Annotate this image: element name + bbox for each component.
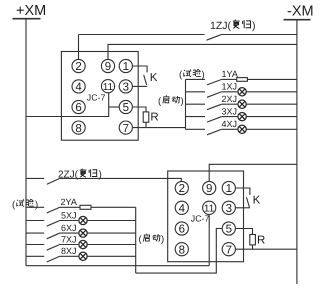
pin 2 <box>72 59 85 72</box>
wire lamp 7XJ to bus <box>87 244 135 246</box>
pin 5 (bottom box) <box>222 222 235 235</box>
row 2XJ contact blade <box>207 104 221 109</box>
wire blade to lamp 5XJ <box>60 220 79 222</box>
row 1YA: stub <box>186 78 206 80</box>
resistor R top body <box>143 112 149 122</box>
contact K top: fixed stub pin1 <box>132 66 147 72</box>
wire blade to lamp 1XJ <box>221 91 237 93</box>
svg-text:2: 2 <box>179 183 185 195</box>
pin 9 <box>101 59 114 72</box>
wire pin11 riser down to +XM wire <box>208 214 210 265</box>
row 8XJ contact blade <box>47 256 60 262</box>
label 2ZJ(reset) <box>58 170 79 181</box>
row 5XJ contact blade <box>47 221 60 227</box>
pin 4 (bottom box) <box>175 201 188 214</box>
svg-text:6XJ: 6XJ <box>61 223 77 233</box>
pin 6 (bottom box) <box>175 222 188 235</box>
label (test) top <box>179 70 205 81</box>
pin 11 <box>101 80 114 93</box>
wire lamp 1XJ to -XM <box>246 91 297 93</box>
relay box U1 JC-7 (top) <box>61 52 138 141</box>
glyph gui <box>243 20 251 28</box>
wire pin9 to -XM (bottom) <box>209 164 297 181</box>
contact K top blade <box>144 75 147 85</box>
label JC-7 top <box>87 93 106 103</box>
row 7XJ contact blade <box>47 245 60 251</box>
label (test) bottom <box>12 199 38 210</box>
pin 4 <box>72 80 85 93</box>
label 4XJ <box>222 119 238 129</box>
label K top <box>150 72 158 84</box>
wire lamp 2XJ to -XM <box>246 103 297 105</box>
label 1XJ <box>222 82 238 92</box>
contact blade 1ZJ <box>207 35 222 41</box>
svg-text:JC-7: JC-7 <box>191 213 210 223</box>
svg-text:9: 9 <box>206 183 212 195</box>
svg-text:R: R <box>257 234 265 246</box>
row 2YA: stub from +XM <box>26 206 44 208</box>
row 8XJ: stub from +XM <box>26 255 44 257</box>
svg-text:2YA: 2YA <box>61 197 77 207</box>
wire blade to coil 2YA <box>60 206 81 208</box>
svg-text:): ) <box>35 199 38 210</box>
row 7XJ: stub from +XM <box>26 244 44 246</box>
label 1ZJ(reset) <box>210 20 232 32</box>
pin 2 (bottom box) <box>175 181 188 194</box>
svg-text:R: R <box>150 112 158 124</box>
label 2XJ <box>222 94 238 104</box>
svg-text:3XJ: 3XJ <box>222 106 238 116</box>
pin 9 (bottom box) <box>203 181 216 194</box>
label 5XJ <box>61 210 77 220</box>
label (start) top <box>158 96 184 107</box>
label JC-7 bottom <box>191 213 210 223</box>
svg-text:2: 2 <box>75 61 81 73</box>
label K bottom <box>253 195 261 207</box>
wire +XM to 2ZJ contact <box>26 177 44 179</box>
wire +XM vertical bus <box>25 19 27 266</box>
row 1YA contact blade <box>207 80 221 85</box>
svg-text:5: 5 <box>123 102 129 114</box>
svg-text:4XJ: 4XJ <box>222 119 238 129</box>
svg-text:5XJ: 5XJ <box>61 210 77 220</box>
pin 1 (bottom box) <box>222 181 235 194</box>
wire coil 2YA to lamp bus <box>91 206 136 208</box>
svg-text:8: 8 <box>179 244 185 256</box>
wire 1ZJ contact to -XM <box>221 34 297 36</box>
svg-text:): ) <box>252 20 256 32</box>
wire lamp 4XJ to -XM <box>246 128 297 130</box>
wire lamp 5XJ to bus <box>87 220 135 222</box>
resistor R bottom body <box>250 235 256 245</box>
pin 1 <box>119 59 132 72</box>
pin 8 <box>72 121 85 134</box>
contact K bottom stub pin3 <box>235 207 250 209</box>
resistor R bottom: stub pin5 right <box>235 229 252 235</box>
svg-text:K: K <box>150 72 158 84</box>
wire 2ZJ to pin2 <box>60 178 182 181</box>
wire lamp 8XJ to bus <box>87 255 135 257</box>
svg-text:+XM: +XM <box>16 3 46 19</box>
svg-text:9: 9 <box>105 61 111 73</box>
bus bar +XM <box>13 18 41 20</box>
bus +XM label <box>16 3 46 19</box>
wire A from pin2 to 1ZJ contact <box>79 34 205 36</box>
row 3XJ contact blade <box>207 117 221 122</box>
bus -XM label <box>287 4 314 20</box>
pin 11 (bottom box) <box>203 201 216 214</box>
contact K top stub pin3 <box>132 85 147 87</box>
svg-text:5: 5 <box>226 224 232 236</box>
label 8XJ <box>61 246 77 256</box>
label 3XJ <box>222 106 238 116</box>
wire -XM vertical bus <box>296 20 298 284</box>
svg-text:3: 3 <box>226 203 232 215</box>
contact blade 2ZJ <box>47 179 60 185</box>
resistor R top lead <box>145 122 147 127</box>
lamp 4XJ <box>238 125 246 133</box>
svg-text:1ZJ(: 1ZJ( <box>210 20 232 32</box>
lamp 8XJ <box>79 252 87 260</box>
svg-text:6: 6 <box>75 102 81 114</box>
wire blade to lamp 2XJ <box>221 103 237 105</box>
svg-text:7XJ: 7XJ <box>61 234 77 244</box>
wire blade to lamp 4XJ <box>221 128 237 130</box>
coil 1YA body <box>237 78 248 82</box>
svg-text:): ) <box>161 234 164 245</box>
wire pin7 to -XM (bottom) <box>235 248 297 250</box>
contact K bottom blade <box>247 197 250 207</box>
row 2YA contact blade <box>47 207 60 213</box>
row 4XJ contact blade <box>207 129 221 134</box>
wire blade to lamp 7XJ <box>60 244 79 246</box>
pin 3 (bottom box) <box>222 201 235 214</box>
wire blade to lamp 6XJ <box>60 232 79 234</box>
row 1XJ: stub <box>186 91 206 93</box>
start bus vertical (top rows) <box>185 79 187 129</box>
wire +XM bottom run <box>26 265 209 267</box>
wire coil 1YA to -XM <box>247 78 297 80</box>
svg-text:8: 8 <box>75 123 81 135</box>
contact K bottom: fixed stub pin1 <box>235 188 250 195</box>
lamp 7XJ <box>79 240 87 248</box>
lamp 6XJ <box>79 229 87 237</box>
label R bottom <box>257 234 265 246</box>
wire stub to pin 5 left <box>109 106 120 108</box>
svg-text:K: K <box>253 195 261 207</box>
label 6XJ <box>61 223 77 233</box>
row 6XJ: stub from +XM <box>26 232 44 234</box>
lamp bus vertical (bottom rows) <box>135 207 137 273</box>
row 4XJ: stub <box>186 128 206 130</box>
wire pin5 left stub down and to lamp bus <box>136 229 223 274</box>
svg-text:(: ( <box>179 70 183 81</box>
resistor R bottom lead <box>252 245 254 249</box>
svg-text:1: 1 <box>123 61 129 73</box>
svg-text:1YA: 1YA <box>222 69 238 79</box>
wire pin7 to start bus <box>132 127 185 129</box>
svg-text:(: ( <box>158 96 162 107</box>
svg-text:-XM: -XM <box>287 4 314 20</box>
svg-text:6: 6 <box>179 224 185 236</box>
resistor R top: stub pin5 right <box>132 107 146 112</box>
svg-text:8XJ: 8XJ <box>61 246 77 256</box>
svg-text:1XJ: 1XJ <box>222 82 238 92</box>
svg-text:7: 7 <box>123 123 129 135</box>
lamp 5XJ <box>79 216 87 224</box>
coil 2YA body <box>80 205 91 209</box>
wire blade to lamp 8XJ <box>60 255 79 257</box>
svg-text:(: ( <box>12 199 16 210</box>
relay box U2 JC-7 (bottom) <box>168 171 244 262</box>
row 6XJ contact blade <box>47 233 60 239</box>
svg-text:1: 1 <box>226 183 232 195</box>
row 1XJ contact blade <box>207 92 221 97</box>
label (start) bottom <box>139 234 165 245</box>
row 3XJ: stub <box>186 116 206 118</box>
pin 7 (bottom box) <box>222 243 235 256</box>
glyph fu <box>233 20 240 29</box>
svg-text:7: 7 <box>226 244 232 256</box>
svg-text:3: 3 <box>123 82 129 94</box>
label R top <box>150 112 158 124</box>
svg-text:): ) <box>181 96 184 107</box>
wire pin2 riser <box>78 35 80 60</box>
svg-text:11: 11 <box>103 82 114 93</box>
lamp 3XJ <box>238 112 246 120</box>
label 2YA <box>61 197 77 207</box>
pin 8 (bottom box) <box>175 243 188 256</box>
svg-text:4: 4 <box>75 82 82 94</box>
bus bar -XM <box>284 19 311 21</box>
lamp 2XJ <box>238 100 246 108</box>
row 5XJ: stub from +XM <box>26 220 44 222</box>
svg-text:JC-7: JC-7 <box>87 93 106 103</box>
svg-text:4: 4 <box>179 203 186 215</box>
pin 7 <box>119 121 132 134</box>
wire +XM feed to pins 11 and 5 <box>26 93 109 117</box>
label 7XJ <box>61 234 77 244</box>
pin 6 <box>72 100 85 113</box>
wire B pin9 to -XM <box>108 44 297 59</box>
pin 3 <box>119 80 132 93</box>
wire lamp 3XJ to -XM <box>246 116 297 118</box>
svg-text:(: ( <box>139 234 143 245</box>
pin 5 <box>119 100 132 113</box>
label 1YA <box>222 69 238 79</box>
wire lamp 6XJ to bus <box>87 232 135 234</box>
lamp 1XJ <box>238 88 246 96</box>
wire blade to coil 1YA <box>221 78 236 80</box>
wire blade to lamp 3XJ <box>221 116 237 118</box>
row 2XJ: stub <box>186 103 206 105</box>
svg-text:2XJ: 2XJ <box>222 94 238 104</box>
